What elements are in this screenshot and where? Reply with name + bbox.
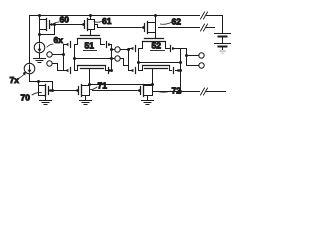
- node dot output51 top tap: [110, 48, 113, 51]
- wire t60 gate-drain diode loop: [40, 25, 55, 35]
- stage52 top gate arrow: [130, 47, 133, 50]
- stage52 input line: [128, 49, 130, 71]
- break marks on VDD rail: [201, 12, 208, 19]
- node dot feeder at C1: [185, 54, 188, 57]
- ground under t70: [40, 100, 52, 102]
- ground under t72: [142, 100, 154, 102]
- svg-text:61: 61: [102, 16, 112, 26]
- wire B1 to stage52 input: [120, 49, 128, 51]
- node dot output52 at bottom wire: [179, 90, 182, 93]
- stage52 bottom channel bar: [143, 65, 170, 67]
- node dot stage51 input: [62, 53, 65, 56]
- stage51 output line: [111, 45, 113, 71]
- stage52 bottom output lead: [176, 70, 181, 72]
- battery B: [215, 34, 231, 54]
- wire t60 drain down to 6x: [39, 30, 41, 43]
- node dot stage51 stub at bottom bus: [88, 83, 91, 86]
- wire gate bus 60-61: [55, 24, 82, 26]
- stage51 bottom gate arrow: [65, 69, 68, 72]
- stage52 top gate bar: [145, 38, 164, 40]
- transistor 62 (PMOS mirror, gate left): [141, 22, 156, 34]
- stage51 top-right step: [101, 39, 105, 45]
- node dot stage52 input top: [127, 48, 130, 51]
- transistor 61 (PMOS mirror, gate left): [81, 19, 95, 31]
- stage52 mid wire to output: [139, 62, 181, 64]
- wire output51 to B2: [112, 58, 115, 60]
- wire rail corner down to battery: [222, 16, 224, 34]
- node dot output52 mid tap: [179, 61, 182, 64]
- stage51 right arrow top: [108, 43, 111, 46]
- ground under t71: [80, 100, 92, 102]
- transistor 72 (NMOS mirror, gate left): [137, 85, 153, 97]
- node dot output52 bottom tap: [179, 69, 182, 72]
- leader for 61: [94, 21, 102, 24]
- stage52 left gate bar bottom: [135, 68, 137, 74]
- node dot t70 drain tap: [37, 80, 40, 83]
- svg-text:60: 60: [60, 15, 70, 25]
- svg-text:70: 70: [21, 93, 31, 103]
- wire output52 stub after break: [207, 91, 226, 93]
- wire t70 source to ground: [45, 97, 47, 101]
- stage52 top-right step: [166, 42, 170, 49]
- transistor 70 (diode-connected NMOS, gate right): [39, 85, 54, 97]
- node dot t70 gate node: [51, 89, 54, 92]
- stage51 top gate arrow: [65, 43, 68, 46]
- input terminal A2: [47, 61, 52, 66]
- node dot stage52 ring mid: [137, 61, 140, 64]
- node dot output51 mid tap: [110, 57, 113, 60]
- stage51 ring left vertical: [74, 45, 76, 71]
- wire gate bus 71-72: [93, 90, 137, 92]
- stage52 top channel bar: [143, 41, 166, 43]
- leader for 71: [90, 87, 97, 90]
- stage51 bottom-right step: [106, 66, 108, 71]
- leader for 70: [32, 93, 42, 95]
- svg-text:7x: 7x: [10, 75, 20, 85]
- wire terminal feeder vertical: [186, 49, 188, 66]
- wire 7x to t70 drain node and gate bus: [30, 74, 53, 91]
- leader arrowhead for 7x: [23, 71, 26, 75]
- stage52 bottom-left step: [139, 66, 143, 71]
- stage51 top output lead: [109, 44, 112, 46]
- node dot output51 bottom tap: [110, 69, 113, 72]
- stage51 left gate bar top: [70, 42, 72, 48]
- stage52 top-left step: [139, 42, 143, 49]
- label 52 underline: [151, 50, 165, 52]
- wire t61 drain to stage 51 top gate: [90, 30, 92, 36]
- wire gate bus 61-62: [98, 27, 141, 29]
- svg-text:71: 71: [98, 81, 108, 91]
- break marks on output wire: [201, 88, 208, 95]
- node dot stage52 stub at bottom bus: [151, 83, 154, 86]
- wire bottom supply bus 51-52: [90, 84, 153, 86]
- stage51 bottom gate lead: [64, 70, 66, 72]
- wire t71 source to ground: [85, 97, 87, 101]
- wire t70 drain up: [38, 82, 40, 86]
- wire feeder to C1: [187, 55, 199, 57]
- stage52 top gate lead: [129, 48, 131, 50]
- stage51 bottom channel bar: [78, 65, 106, 67]
- input terminal A1: [47, 52, 52, 57]
- stage52 right arrow bottom: [178, 69, 181, 72]
- svg-text:62: 62: [172, 17, 182, 27]
- leader for 6x: [47, 44, 53, 47]
- wire A2 to stage51 input bottom: [53, 64, 64, 71]
- svg-text:6x: 6x: [54, 35, 64, 45]
- node dot t60 gate node: [53, 23, 56, 26]
- stage51 top gate lead: [64, 44, 66, 46]
- stage51 top gate bar: [81, 35, 100, 37]
- wire t60 source to rail: [39, 16, 41, 20]
- inter-stage terminal B1: [115, 47, 120, 52]
- transistor 71 (NMOS mirror, gate left): [75, 85, 90, 97]
- stage51 input line: [63, 45, 65, 71]
- stage52 bottom-right step: [170, 66, 172, 71]
- svg-text:52: 52: [152, 41, 162, 51]
- wire gate bus continuation right: [159, 27, 200, 29]
- current source 6x: [34, 42, 45, 53]
- wire gate bus stub after break: [207, 27, 215, 29]
- output terminal C2: [199, 63, 204, 68]
- wire feeder to C2: [187, 65, 199, 67]
- stage51 right gate bar bottom: [108, 68, 110, 74]
- node dot t62 source at rail: [154, 14, 157, 17]
- inter-stage terminal B2: [115, 56, 120, 61]
- stage51 mid wire to output: [75, 58, 112, 60]
- wire gate bus 70-71: [53, 90, 76, 92]
- wire t61 source to rail: [90, 16, 92, 20]
- node dot stage51 ring mid: [73, 57, 76, 60]
- output terminal C1: [199, 53, 204, 58]
- stage52 output line: [180, 49, 182, 92]
- stage51 bottom gate bar: [81, 68, 104, 70]
- stage52 top output lead to feeder: [173, 48, 187, 50]
- stage51 bottom supply stub: [89, 69, 91, 85]
- wire A1 to stage51 input: [53, 54, 64, 56]
- stage52 bottom gate bar: [145, 68, 168, 70]
- wire t62 drain to stage 52 top gate: [155, 33, 157, 39]
- stage51 right gate bar top: [106, 42, 108, 48]
- transistor 60 (diode-connected PMOS, gate right): [40, 19, 55, 31]
- node dot t60 drain junction: [38, 33, 41, 36]
- leader for 7x: [19, 74, 24, 78]
- wire t61 gate lead jog: [95, 25, 98, 28]
- ground under 6x: [34, 58, 46, 60]
- dual-gate stage 51: [64, 36, 113, 85]
- leader for 72: [159, 91, 171, 92]
- stage52 ring left vertical: [138, 49, 140, 71]
- wire VDD rail: [30, 15, 200, 17]
- wire output51 to B1: [112, 49, 115, 51]
- leader for 62: [161, 23, 172, 25]
- stage51 top-left step: [75, 39, 78, 45]
- node dot t61 source at rail: [89, 14, 92, 17]
- svg-text:51: 51: [85, 41, 95, 51]
- stage51 right arrow bottom: [109, 69, 112, 72]
- break marks on gate bus: [201, 24, 208, 31]
- wire output52 bottom right: [153, 91, 200, 93]
- stage52 right gate bar top: [170, 46, 172, 52]
- node dot t60 source at rail: [38, 14, 41, 17]
- wire left rail down to current source 7x: [29, 16, 31, 64]
- stage51 top channel bar: [78, 38, 101, 40]
- dual-gate stage 52: [129, 39, 187, 85]
- stage52 right gate bar bottom: [173, 68, 175, 74]
- current source 7x: [24, 63, 35, 74]
- wire 6x to ground: [39, 53, 41, 59]
- stage52 bottom gate lead: [129, 70, 131, 72]
- label 51 underline: [84, 50, 97, 52]
- wire VDD rail right segment: [207, 15, 223, 17]
- wire B2 to stage52 input bottom: [120, 59, 128, 66]
- stage52 left gate bar top: [135, 46, 137, 52]
- stage52 right arrow top: [172, 47, 175, 50]
- stage51 bottom-left step: [75, 66, 78, 71]
- stage52 bottom gate arrow: [130, 69, 133, 72]
- wire t72 source to ground: [147, 97, 149, 101]
- leader for 60: [53, 22, 59, 24]
- stage51 left gate bar bottom: [70, 68, 72, 74]
- stage52 bottom supply stub: [152, 69, 154, 85]
- wire t62 source to rail: [155, 16, 157, 23]
